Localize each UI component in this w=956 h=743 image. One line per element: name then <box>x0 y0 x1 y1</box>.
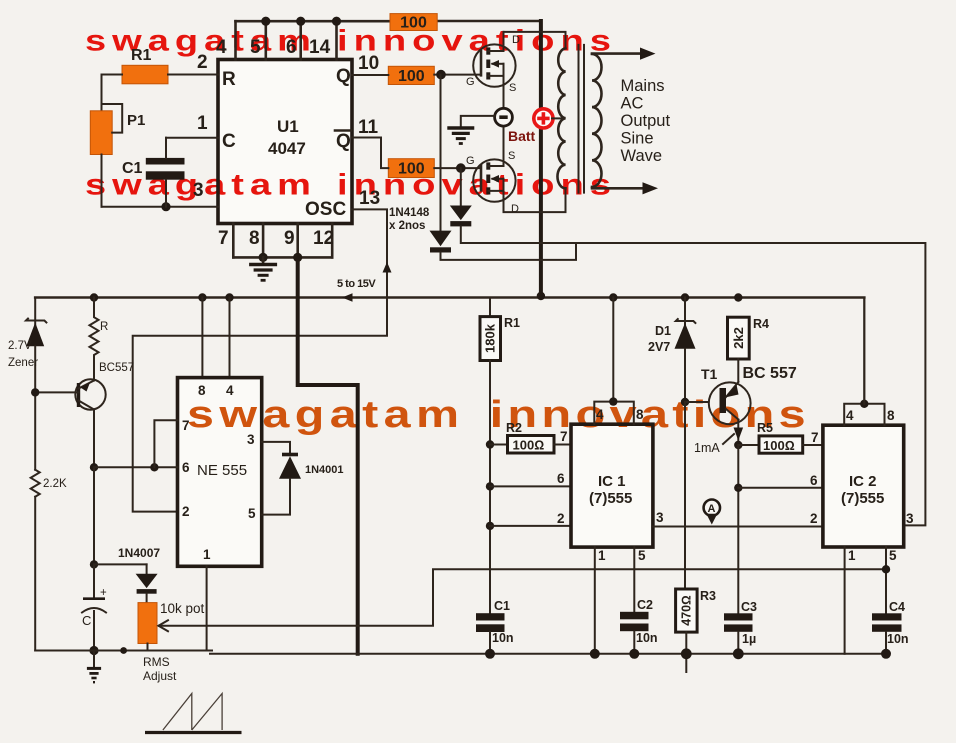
svg-text:13: 13 <box>359 188 380 209</box>
svg-text:2.7V: 2.7V <box>8 340 32 352</box>
label Batt <box>508 128 536 144</box>
svg-text:4: 4 <box>216 37 227 58</box>
svg-text:Q: Q <box>336 66 351 87</box>
svg-text:R: R <box>222 69 236 90</box>
svg-text:5: 5 <box>638 548 646 563</box>
wire diode cathodes to feedback line <box>441 226 926 525</box>
svg-text:2k2: 2k2 <box>731 327 746 349</box>
ic IC1 555 box <box>571 424 653 547</box>
capacitor C1 10n <box>476 599 514 654</box>
wire IC1 pins 4 8 bracket <box>594 298 644 425</box>
resistor R5 100R <box>734 421 823 453</box>
U1 top pin stubs 4 5 6 14 <box>216 21 337 59</box>
ground bottom left <box>87 646 101 682</box>
svg-text:G: G <box>466 155 475 167</box>
svg-text:3: 3 <box>906 511 914 526</box>
wire IC2 pin 1 to rail <box>845 547 856 654</box>
resistor R1 180k <box>480 298 520 614</box>
svg-text:4: 4 <box>226 383 234 398</box>
potentiometer P1 (orange) <box>90 111 145 155</box>
wire battery positive rail (top bus down to supply rail) <box>539 21 543 296</box>
svg-text:1µ: 1µ <box>742 632 756 646</box>
zener D1 2V7 <box>648 298 696 403</box>
svg-text:R1: R1 <box>504 316 520 330</box>
svg-text:P1: P1 <box>127 112 145 129</box>
svg-text:C3: C3 <box>741 600 757 614</box>
node dots on supply rail <box>90 292 743 302</box>
svg-text:R3: R3 <box>700 589 716 603</box>
resistor 2.2K (zigzag) <box>31 470 67 651</box>
svg-text:S: S <box>508 150 515 162</box>
svg-text:Q: Q <box>336 131 351 152</box>
node dots on bottom rail <box>485 648 891 659</box>
svg-text:6: 6 <box>557 471 565 486</box>
label 1N4148 x 2nos <box>389 207 430 232</box>
resistor 100 (Q-bar output, orange) <box>388 159 434 178</box>
svg-text:7: 7 <box>560 429 568 444</box>
wire IC1 pin 1 to rail <box>595 547 606 654</box>
wire pin6 line with BC557 emitter <box>94 463 178 471</box>
wire IC1 pin3 to IC2 pin2 <box>653 510 823 527</box>
transformer primary winding <box>557 48 565 188</box>
svg-text:100Ω: 100Ω <box>763 438 795 453</box>
svg-text:3: 3 <box>656 510 664 525</box>
ic U1 4047 box <box>218 60 352 224</box>
transformer secondary winding <box>592 54 602 187</box>
svg-text:4: 4 <box>596 407 604 422</box>
svg-text:R1: R1 <box>131 47 152 64</box>
svg-text:D: D <box>511 203 519 215</box>
svg-text:470Ω: 470Ω <box>679 595 693 625</box>
ground under U1 pin 8 <box>249 257 277 280</box>
wire zener node to BC557 base <box>31 388 79 396</box>
wire U1 ground pins to bottom rail (thick) <box>298 257 358 653</box>
svg-text:R: R <box>100 321 108 333</box>
svg-text:C1: C1 <box>494 599 510 613</box>
svg-text:3: 3 <box>193 180 204 201</box>
svg-text:7: 7 <box>218 228 229 249</box>
svg-text:OSC: OSC <box>305 199 346 220</box>
capacitor C4 10n <box>872 600 909 654</box>
svg-text:10: 10 <box>358 53 379 74</box>
mosfet Q-top <box>466 32 520 109</box>
resistor R2 100R <box>490 421 571 453</box>
ic NE555 box <box>178 378 262 567</box>
svg-text:100: 100 <box>398 68 425 85</box>
svg-text:2: 2 <box>182 504 190 519</box>
diode 1N4148 left <box>430 231 452 253</box>
svg-text:1: 1 <box>848 548 856 563</box>
wire IC1 pin 6 <box>490 471 571 486</box>
wire NE555 pin 1 to rail <box>206 566 208 650</box>
transformer core <box>579 45 585 193</box>
svg-text:1: 1 <box>598 548 606 563</box>
svg-text:RMS: RMS <box>143 655 170 669</box>
probe marker A <box>704 500 720 525</box>
svg-text:T1: T1 <box>701 366 718 382</box>
svg-text:180k: 180k <box>483 323 498 353</box>
svg-text:7: 7 <box>811 430 819 445</box>
svg-text:C1: C1 <box>122 160 143 177</box>
wire secondary output top with arrow <box>592 48 656 60</box>
svg-text:1: 1 <box>197 113 208 134</box>
resistor 100 (Q output, orange) <box>388 66 434 85</box>
svg-text:8: 8 <box>198 383 206 398</box>
wire D1 node to T1 base and R3 <box>681 398 707 589</box>
transistor BC557 left <box>75 357 134 467</box>
svg-text:1N4001: 1N4001 <box>305 464 344 476</box>
svg-text:(7)555: (7)555 <box>841 490 884 507</box>
wire NE555 pin 7 jumper <box>154 420 177 467</box>
svg-text:10n: 10n <box>636 631 658 645</box>
svg-text:1N4148: 1N4148 <box>389 207 430 219</box>
wire T1 emitter column to C3 <box>734 445 742 613</box>
svg-text:8: 8 <box>636 407 644 422</box>
svg-text:4047: 4047 <box>268 139 306 158</box>
svg-text:10n: 10n <box>492 631 514 645</box>
svg-text:9: 9 <box>284 228 295 249</box>
wire center tap to battery plus <box>552 117 562 119</box>
wire IC1 pin 2 <box>490 511 571 526</box>
svg-text:(7)555: (7)555 <box>589 490 632 507</box>
svg-text:4: 4 <box>846 408 854 423</box>
svg-text:6: 6 <box>182 460 190 475</box>
svg-text:2: 2 <box>197 52 208 73</box>
wire U1 pin 13 OSC output <box>133 188 392 512</box>
svg-text:1mA: 1mA <box>694 441 720 455</box>
svg-text:Zener: Zener <box>8 357 38 369</box>
svg-text:6: 6 <box>810 473 818 488</box>
mosfet Q-bottom <box>466 126 519 215</box>
wire C1 to U1 pin 1 <box>166 113 218 138</box>
svg-text:6: 6 <box>286 37 297 58</box>
wire IC1 pin 5 to C2 <box>634 547 646 612</box>
svg-text:G: G <box>466 76 475 88</box>
wire IC2 pin 3 output <box>906 511 914 526</box>
svg-text:5: 5 <box>250 37 261 58</box>
wire P1 bottom to pin 3 <box>102 155 219 212</box>
svg-text:Adjust: Adjust <box>143 669 177 683</box>
ground near battery minus <box>447 116 494 144</box>
node dots on top bus <box>261 17 341 26</box>
svg-text:14: 14 <box>309 37 331 58</box>
svg-text:C: C <box>82 613 91 628</box>
battery minus terminal <box>495 108 513 126</box>
svg-text:C2: C2 <box>637 598 653 612</box>
wire NE555 pins 8 4 to supply <box>202 298 229 378</box>
transistor T1 BC557 <box>701 365 797 445</box>
svg-text:A: A <box>708 503 716 515</box>
wire IC2 pin 6 <box>738 473 823 488</box>
label RMS Adjust <box>143 655 177 683</box>
svg-text:C4: C4 <box>889 600 905 614</box>
wire bottom gate node down to diode <box>460 168 462 205</box>
node dots on R1 column <box>486 440 494 530</box>
U1 bottom pin stubs 7 8 9 12 <box>218 224 334 263</box>
svg-text:3: 3 <box>247 432 255 447</box>
ic IC2 555 box <box>823 425 904 547</box>
svg-text:Batt: Batt <box>508 128 536 144</box>
svg-text:R5: R5 <box>757 421 773 435</box>
svg-text:2: 2 <box>557 511 565 526</box>
wire R1 left to P1 <box>102 75 123 111</box>
svg-text:BC 557: BC 557 <box>743 365 797 382</box>
svg-text:AC: AC <box>621 95 644 113</box>
label Mains AC Output Sine Wave <box>621 77 671 165</box>
resistor R (zigzag to BC557) <box>90 298 109 358</box>
svg-text:NE 555: NE 555 <box>197 462 247 479</box>
supply rail 5 to 15V <box>35 278 864 404</box>
svg-text:7: 7 <box>182 418 190 433</box>
diode 1N4001 with NE555 pin3 pin5 <box>262 442 344 515</box>
wire top MOSFET drain to transformer <box>504 32 566 51</box>
resistor R1 (orange, top-left) <box>122 47 168 84</box>
capacitor C (left, polarized) <box>82 587 107 651</box>
svg-text:S: S <box>509 82 516 94</box>
svg-text:D: D <box>512 34 520 46</box>
diode 1N4007 <box>94 546 160 594</box>
svg-text:Mains: Mains <box>621 77 665 95</box>
svg-text:5: 5 <box>889 548 897 563</box>
wire resistor to bottom MOSFET gate <box>434 163 481 173</box>
svg-text:D1: D1 <box>655 324 671 338</box>
svg-text:11: 11 <box>358 117 379 138</box>
svg-text:100: 100 <box>398 161 425 178</box>
svg-text:+: + <box>100 587 107 599</box>
wire top bus <box>236 20 541 23</box>
wire IC2 pins 4 8 bracket <box>844 298 895 426</box>
P1 wiper arm <box>102 104 123 133</box>
svg-text:1N4007: 1N4007 <box>118 546 160 560</box>
label 1mA with arrow <box>694 428 743 456</box>
capacitor C1 (U1 timing) <box>122 138 185 207</box>
wire pot wiper to IC2 pin5 line <box>159 569 886 631</box>
svg-text:8: 8 <box>249 228 260 249</box>
svg-text:5: 5 <box>248 506 256 521</box>
bottom ground rail <box>35 647 887 654</box>
svg-text:2.2K: 2.2K <box>43 478 67 490</box>
wire top gate node down to diode <box>440 75 442 231</box>
svg-text:10k pot: 10k pot <box>160 601 205 616</box>
potentiometer 10k pot (orange) <box>138 594 205 651</box>
svg-text:IC 2: IC 2 <box>849 473 877 490</box>
wire bottom MOSFET drain to transformer <box>504 188 566 212</box>
capacitor C2 10n <box>620 598 658 654</box>
svg-text:U1: U1 <box>277 117 299 136</box>
svg-text:2: 2 <box>810 511 818 526</box>
svg-text:R4: R4 <box>753 317 769 331</box>
svg-text:IC 1: IC 1 <box>598 473 626 490</box>
wire secondary output bottom with arrow <box>592 182 658 194</box>
svg-text:5 to 15V: 5 to 15V <box>337 278 376 290</box>
wire BC557 emitter column <box>90 463 98 599</box>
svg-text:1: 1 <box>203 547 211 562</box>
svg-text:Wave: Wave <box>621 147 663 165</box>
sawtooth waveform <box>145 694 242 733</box>
svg-text:8: 8 <box>887 408 895 423</box>
svg-text:Output: Output <box>621 112 671 130</box>
resistor 100 (top bus, orange) <box>390 14 437 32</box>
wire R1 to U1 pin 2 <box>168 52 218 75</box>
wire U1 pin 11 to resistor <box>352 117 388 168</box>
wire IC2 pin 5 <box>882 547 897 613</box>
wire resistor to top MOSFET gate <box>434 70 481 80</box>
svg-text:100: 100 <box>400 15 427 32</box>
svg-text:12: 12 <box>313 228 334 249</box>
wire U1 pin 10 to resistor <box>352 53 388 75</box>
svg-text:10n: 10n <box>887 632 909 646</box>
svg-text:swagatam: swagatam <box>187 394 464 436</box>
svg-text:BC557: BC557 <box>99 362 134 374</box>
svg-text:R2: R2 <box>506 421 522 435</box>
zener 2.7V <box>8 298 46 470</box>
battery plus terminal (red) <box>534 109 553 128</box>
diode 1N4148 right <box>450 206 472 227</box>
svg-text:x 2nos: x 2nos <box>389 220 425 232</box>
svg-text:C: C <box>222 131 236 152</box>
resistor R3 470R <box>676 589 716 672</box>
svg-text:2V7: 2V7 <box>648 340 670 354</box>
svg-text:100Ω: 100Ω <box>513 438 545 453</box>
resistor R4 2k2 <box>728 317 770 381</box>
svg-text:Sine: Sine <box>621 130 654 148</box>
capacitor C3 1u <box>724 600 757 654</box>
